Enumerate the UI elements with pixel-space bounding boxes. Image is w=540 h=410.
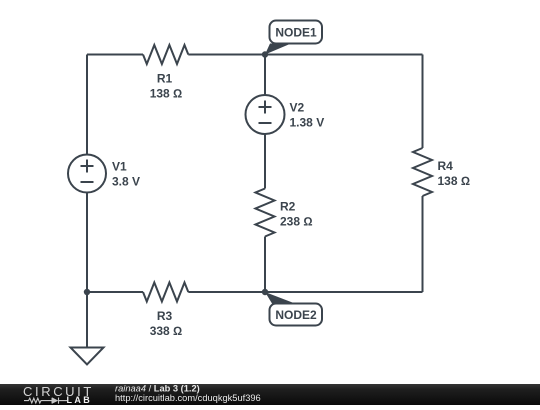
wire left vertical (V1 to bottom wire): [86, 193, 88, 293]
svg-text:R4: R4: [438, 159, 454, 173]
wire top horizontal (R1 to top-right corner through NODE1 junction): [188, 54, 422, 56]
resistor R1: [143, 45, 188, 64]
svg-text:R1: R1: [157, 72, 173, 86]
voltage source V2: [246, 95, 285, 134]
wire bottom (left junction to R3): [87, 291, 143, 293]
node label NODE2: [265, 292, 322, 326]
footer bar: [0, 384, 540, 405]
svg-text:NODE1: NODE1: [275, 26, 317, 40]
svg-text:http://circuitlab.com/cduqkgk5: http://circuitlab.com/cduqkgk5uf396: [115, 393, 261, 403]
svg-text:138 Ω: 138 Ω: [438, 174, 471, 188]
wire left vertical (top corner to V1): [86, 55, 88, 155]
wire right vertical (top corner to R4): [422, 55, 424, 149]
wire middle vertical (R2 to NODE2): [264, 237, 266, 293]
resistor R3: [143, 283, 188, 302]
svg-text:V1: V1: [112, 160, 127, 174]
label R1 value: [150, 72, 183, 101]
node junction dot NODE2: [262, 289, 268, 295]
label R4 value: [438, 159, 471, 188]
svg-text:LAB: LAB: [67, 395, 93, 405]
resistor R2: [256, 189, 275, 237]
wire bottom (R3 to bottom-right corner through NODE2 junction): [188, 291, 422, 293]
resistor R4: [413, 148, 432, 196]
label V2 value: [290, 101, 325, 130]
wire middle vertical (V2 to R2): [264, 134, 266, 189]
wire middle vertical (NODE1 to V2): [264, 55, 266, 96]
voltage source V1: [68, 155, 106, 193]
node label NODE1: [265, 21, 322, 55]
svg-text:238 Ω: 238 Ω: [280, 215, 313, 229]
ground: [71, 348, 104, 365]
wire top-left horizontal (corner to R1): [87, 54, 143, 56]
footer logo schematic glyph (resistor + diode): [24, 398, 67, 404]
svg-text:R3: R3: [157, 309, 173, 323]
footer logo diode triangle: [52, 397, 58, 403]
label V1 value: [112, 160, 140, 189]
svg-text:R2: R2: [280, 200, 296, 214]
svg-text:1.38 V: 1.38 V: [290, 116, 325, 130]
svg-text:3.8 V: 3.8 V: [112, 175, 140, 189]
label R2 value: [280, 200, 313, 229]
wire right vertical (R4 to bottom corner): [422, 196, 424, 292]
svg-text:rainaa4 / Lab 3 (1.2): rainaa4 / Lab 3 (1.2): [115, 383, 200, 393]
wire ground lead: [86, 292, 88, 348]
svg-text:338 Ω: 338 Ω: [150, 324, 183, 338]
node junction dot bottom-left: [84, 289, 90, 295]
svg-text:V2: V2: [290, 101, 305, 115]
label R3 value: [150, 309, 183, 338]
svg-text:138 Ω: 138 Ω: [150, 87, 183, 101]
node junction dot NODE1: [262, 51, 268, 57]
svg-text:NODE2: NODE2: [275, 308, 317, 322]
